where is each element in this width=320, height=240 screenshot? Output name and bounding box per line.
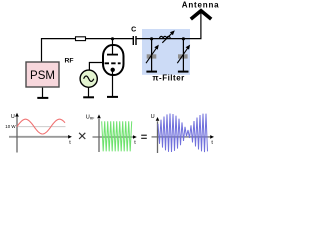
plot1 t-axis arrow [68,135,72,139]
wire PSM bottom to ground [42,87,44,97]
plot1 10W level line [17,126,66,128]
wire left variable capacitor [151,39,153,71]
plot3 y-axis arrow [156,117,160,121]
svg-text:C: C [131,27,136,34]
plot2 green RF carrier [102,121,132,151]
svg-text:t: t [211,140,213,146]
RF oscillator source [80,70,97,87]
variable capacitor C-right gray plates [178,54,188,58]
ground right filter cap [178,71,189,73]
multiply sign [79,133,85,139]
wire tube cathode to ground [112,70,114,97]
tube cathode dot [111,68,115,72]
tube grid (dashed) [105,62,121,64]
svg-text:U: U [11,114,15,120]
node left cap junction [150,37,153,40]
wire RF bottom to ground [88,87,90,97]
plot3 y-axis [157,121,159,153]
svg-text:PSM: PSM [30,70,55,82]
plot3 blue AM modulated wave [158,114,208,153]
svg-text:t: t [69,140,71,146]
plot1 red NF sine [17,119,65,134]
plot1 t-axis [9,136,68,138]
left variable capacitor arrow [146,45,159,64]
pi-filter enclosure box [142,29,190,75]
variable capacitor C-left gray plates [147,54,157,58]
equals sign [141,135,147,136]
tube anode plate [107,54,118,56]
variable inductor L coil [160,36,171,38]
wire PSM top riser and top rail [42,39,134,62]
wire RF top to tube grid [89,63,104,71]
plot2 y-axis arrow [97,114,101,118]
ground under tube [107,96,118,98]
wire right variable capacitor [182,39,184,71]
triode tube V1 envelope [103,45,124,75]
node anode junction [111,37,114,40]
ground under PSM [37,97,48,99]
svg-text:10 W: 10 W [5,124,16,129]
plot3 t-axis [152,136,211,138]
coupling capacitor C plates [133,36,134,45]
ground under RF source [83,96,94,98]
svg-text:t: t [134,140,136,146]
antenna symbol chevron [191,11,211,19]
node right cap junction [182,37,185,40]
PSM modulator block [26,62,59,87]
resistor R (anode feed) [76,37,86,41]
plot2 t-axis arrow [133,135,137,139]
plot1 y-axis arrow [15,113,19,117]
svg-text:URF: URF [86,114,95,120]
plot1 y-axis [16,117,18,153]
svg-text:Antenna: Antenna [182,0,220,9]
ground left filter cap [146,71,157,73]
wire tube anode riser [112,39,114,55]
svg-text:RF: RF [65,57,74,64]
right variable capacitor arrow [177,45,190,64]
plot2 y-axis [98,119,100,152]
wire top rail right of coupling cap to antenna corner [136,13,201,39]
variable inductor arrow [162,30,175,42]
svg-text:U: U [151,114,155,120]
plot2 t-axis [93,136,134,138]
svg-text:π-Filter: π-Filter [152,73,184,82]
plot3 t-axis arrow [210,135,214,139]
